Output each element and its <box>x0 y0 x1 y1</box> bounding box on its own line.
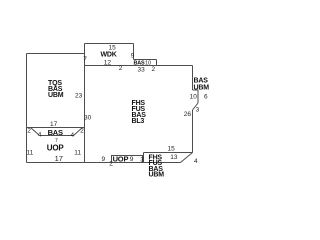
svg-text:9: 9 <box>130 156 134 163</box>
wire trapezoid left diagonal <box>31 128 40 136</box>
svg-text:26: 26 <box>184 111 192 118</box>
svg-text:4: 4 <box>71 132 75 139</box>
wire right edge upper <box>192 66 194 91</box>
svg-text:UOP: UOP <box>47 143 65 152</box>
svg-text:9: 9 <box>131 53 135 60</box>
svg-text:2: 2 <box>27 128 31 135</box>
svg-text:30: 30 <box>84 115 92 122</box>
svg-text:6: 6 <box>204 94 208 101</box>
svg-text:BL3: BL3 <box>132 118 145 125</box>
svg-text:UOP: UOP <box>113 154 129 163</box>
svg-text:15: 15 <box>109 45 117 52</box>
svg-text:11: 11 <box>74 149 81 156</box>
svg-text:2: 2 <box>80 128 84 135</box>
svg-text:12: 12 <box>104 59 112 66</box>
svg-text:2: 2 <box>152 66 156 73</box>
svg-text:UBM: UBM <box>149 172 165 179</box>
wire BAS strip top edge <box>134 59 157 61</box>
svg-text:BAS: BAS <box>48 128 63 137</box>
wire BAS strip right edge <box>156 60 158 66</box>
svg-text:10: 10 <box>145 60 151 66</box>
wire bottom edge <box>27 162 181 164</box>
svg-text:11: 11 <box>27 150 34 157</box>
svg-text:9: 9 <box>102 156 106 163</box>
wire right edge lower <box>192 110 194 153</box>
svg-text:13: 13 <box>170 154 178 161</box>
svg-text:BAS: BAS <box>194 78 209 85</box>
svg-text:UBM: UBM <box>48 92 64 99</box>
svg-text:BAS: BAS <box>134 60 146 66</box>
svg-text:3: 3 <box>140 157 144 164</box>
svg-text:17: 17 <box>55 154 63 163</box>
svg-text:2: 2 <box>109 160 113 167</box>
wire bottom-right box left edge <box>143 153 145 163</box>
svg-text:23: 23 <box>75 92 83 99</box>
svg-text:4: 4 <box>194 158 198 165</box>
wire WDK top edge <box>85 43 134 45</box>
svg-text:2: 2 <box>119 65 123 72</box>
wire WDK right edge <box>133 44 135 60</box>
svg-text:WDK: WDK <box>101 52 117 59</box>
wire trapezoid bottom line <box>40 135 74 137</box>
wire main top edge <box>85 65 193 67</box>
wire center divider vertical <box>84 44 86 163</box>
wire left-box left edge <box>26 54 28 163</box>
svg-text:4: 4 <box>38 132 42 139</box>
svg-text:33: 33 <box>138 67 146 74</box>
wire bottom-right diagonal <box>181 153 193 163</box>
svg-text:3: 3 <box>196 106 200 113</box>
svg-text:7: 7 <box>55 138 58 144</box>
wire UOP porch box <box>112 156 143 163</box>
wire bump jog <box>193 89 199 91</box>
wire left-box top edge <box>27 53 85 55</box>
wire bottom-right box top edge <box>144 152 193 154</box>
svg-text:UBM: UBM <box>194 85 210 92</box>
svg-text:15: 15 <box>168 145 176 152</box>
wire trapezoid top line <box>27 127 85 129</box>
wire trapezoid right diagonal <box>74 128 83 136</box>
wire bump right edge <box>197 90 199 103</box>
wire bump diagonal <box>193 103 199 110</box>
svg-text:10: 10 <box>190 94 198 101</box>
svg-text:17: 17 <box>50 121 58 128</box>
svg-text:7: 7 <box>83 56 87 63</box>
